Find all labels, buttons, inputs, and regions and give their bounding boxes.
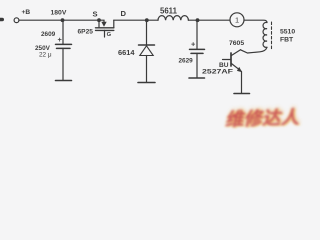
svg-text:S: S xyxy=(93,9,98,18)
svg-text:6614: 6614 xyxy=(118,48,135,57)
svg-text:22 μ: 22 μ xyxy=(39,52,52,59)
svg-text:2629: 2629 xyxy=(179,57,194,64)
svg-text:+: + xyxy=(191,39,196,48)
transistor collector diagonal xyxy=(231,50,240,56)
MOSFET source vertical xyxy=(98,20,100,27)
capacitor C1 2609 bottom plate xyxy=(57,47,71,49)
svg-text:+: + xyxy=(58,35,63,44)
diode 6614 triangle xyxy=(140,46,153,56)
ground bar under diode xyxy=(138,82,155,84)
capacitor C2 2629 top plate xyxy=(190,48,205,50)
transistor base lead xyxy=(223,59,232,61)
MOSFET gate bar xyxy=(96,29,114,31)
transistor Q BU2527AF base bar xyxy=(230,53,232,66)
edge mark xyxy=(0,18,2,22)
wire: node 180V to MOSFET source xyxy=(62,19,99,21)
svg-text:D: D xyxy=(121,9,127,18)
wire: test point to FBT xyxy=(244,20,267,22)
svg-text:5510: 5510 xyxy=(280,29,295,36)
svg-text:2609: 2609 xyxy=(41,31,56,38)
MOSFET channel bar xyxy=(96,27,114,29)
wire: C2 branch down xyxy=(196,20,198,49)
node diode junction dot xyxy=(145,18,149,22)
diode 6614 cathode bar xyxy=(139,44,155,46)
MOSFET gate lead xyxy=(104,30,106,37)
wire: node C2 to test point circle xyxy=(198,19,230,21)
transistor emitter diagonal xyxy=(231,64,240,71)
svg-text:FBT: FBT xyxy=(280,36,294,43)
terminal +B xyxy=(14,18,19,23)
FBT primary winding coil xyxy=(263,22,267,47)
svg-text:+B: +B xyxy=(22,9,31,16)
svg-text:7605: 7605 xyxy=(229,40,244,47)
wire: drain to diode node xyxy=(114,19,147,21)
capacitor C1 2609 top plate xyxy=(56,43,72,45)
wire: terminal to node 180V xyxy=(19,19,62,21)
watermark xyxy=(225,102,318,125)
watermark underlay xyxy=(226,101,319,124)
MOSFET 6P25 source node dot xyxy=(97,18,101,22)
FBT core dashed line xyxy=(271,22,273,49)
wire: C1 to ground xyxy=(62,48,64,80)
test point circle 1 xyxy=(230,13,244,27)
node C2 junction dot xyxy=(196,18,200,22)
node 180V junction xyxy=(61,18,65,22)
wire: diode to ground xyxy=(146,56,148,83)
wire: diode branch down xyxy=(146,20,148,44)
MOSFET body arrow xyxy=(101,22,106,27)
transistor emitter arrowhead xyxy=(237,67,242,72)
ground bar under C1 xyxy=(56,80,72,82)
labels xyxy=(22,7,296,76)
MOSFET arrow stub xyxy=(99,20,104,22)
capacitor C2 2629 bottom plate xyxy=(191,52,203,54)
wire: C1 branch down xyxy=(62,20,64,44)
wire: inductor to node C2 xyxy=(188,19,197,21)
wire: coil bottom to collector xyxy=(241,47,268,53)
ground bar under C2 xyxy=(189,77,205,79)
inductor L 5611 xyxy=(158,16,188,21)
ground bar under emitter xyxy=(234,93,250,95)
MOSFET drain vertical xyxy=(113,20,115,28)
svg-text:180V: 180V xyxy=(51,10,67,17)
svg-text:2527AF: 2527AF xyxy=(202,69,233,76)
svg-text:G: G xyxy=(107,32,112,38)
wire: C2 to ground xyxy=(196,53,198,77)
svg-text:6P25: 6P25 xyxy=(78,28,94,35)
svg-text:1: 1 xyxy=(235,16,239,25)
svg-text:5611: 5611 xyxy=(160,7,178,16)
wire: diode node to inductor xyxy=(147,19,158,21)
wire: emitter to ground xyxy=(241,72,243,94)
